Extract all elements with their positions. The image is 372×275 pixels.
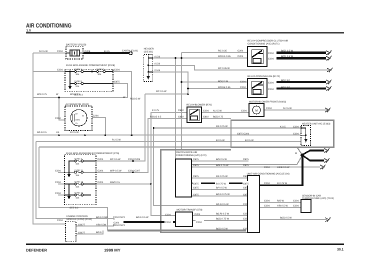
wire ECM out row1 — [76, 222, 114, 226]
svg-text:C204: C204 — [238, 55, 244, 58]
fusebox2 internal vertical — [68, 161, 70, 174]
wire transducer to unit row1 — [192, 215, 249, 217]
svg-text:C204 C871: C204 C871 — [113, 216, 126, 219]
wire fusebox1 input — [33, 71, 65, 73]
svg-text:C204: C204 — [264, 166, 270, 169]
svg-text:W/P 0.5 W: W/P 0.5 W — [110, 169, 122, 172]
svg-text:FUSE 13: FUSE 13 — [75, 181, 84, 184]
label text on black wires — [114, 52, 275, 224]
svg-text:C810: C810 — [178, 116, 184, 119]
arrow y110 — [325, 108, 331, 113]
svg-text:RC/LB 0.35: RC/LB 0.35 — [218, 86, 231, 89]
svg-text:R/LG 0.5 W: R/LG 0.5 W — [216, 203, 229, 206]
svg-text:B(U) 3.0: B(U) 3.0 — [281, 86, 291, 89]
svg-text:LG: LG — [56, 131, 59, 134]
wire V149.5 blower pin1 and transducer — [151, 112, 187, 215]
svg-text:C204: C204 — [55, 169, 61, 172]
svg-text:B(S) 0.75: B(S) 0.75 — [213, 116, 224, 119]
svg-text:C875: C875 — [243, 164, 249, 167]
arrow y168.7 — [320, 165, 326, 170]
svg-text:C204: C204 — [165, 213, 171, 216]
svg-text:C875: C875 — [243, 158, 249, 161]
wire heater row1 — [154, 127, 301, 129]
svg-text:10A: 10A — [76, 197, 80, 200]
svg-text:0.5 B: 0.5 B — [155, 69, 161, 72]
svg-text:C204: C204 — [264, 199, 270, 202]
alternator — [55, 103, 99, 131]
wire fuse2 row1 to RC line — [96, 94, 145, 161]
fuse P3 — [65, 183, 97, 185]
svg-text:C204: C204 — [238, 50, 244, 53]
svg-text:C204: C204 — [293, 125, 299, 128]
enclosure heater area — [231, 120, 334, 147]
wire header branch2 to offpage y70 — [153, 65, 329, 70]
svg-text:C204: C204 — [264, 204, 270, 207]
svg-text:RC 0.35 W: RC 0.35 W — [218, 67, 230, 70]
svg-text:C204: C204 — [196, 221, 202, 224]
svg-text:C875: C875 — [193, 175, 199, 178]
labels mid area — [96, 67, 297, 234]
ground arrow in header — [147, 76, 151, 80]
svg-text:C204: C204 — [264, 182, 270, 185]
fusebox2 arrow 1 — [67, 174, 70, 178]
fuse P4 — [65, 194, 92, 196]
svg-text:MOTOR-TRANSF (S78): MOTOR-TRANSF (S78) — [177, 209, 203, 212]
svg-text:B(S) 0.5 W: B(S) 0.5 W — [216, 228, 228, 231]
svg-text:C204: C204 — [240, 80, 246, 83]
fuse F2 — [96, 70, 113, 72]
svg-text:MODULE (ECM) (Z132): MODULE (ECM) (Z132) — [67, 218, 93, 221]
svg-text:W/S 0.75: W/S 0.75 — [37, 93, 48, 96]
svg-text:C875: C875 — [114, 81, 120, 84]
footer rule — [26, 243, 344, 245]
relay cooling fan — [218, 75, 291, 98]
svg-text:W/LG 0.5: W/LG 0.5 — [70, 93, 81, 96]
svg-text:(S/E101): (S/E101) — [144, 50, 154, 53]
svg-text:B 4.5: B 4.5 — [104, 50, 110, 53]
wire main vertical V33 — [33, 53, 66, 224]
wire V36 to inline connector — [36, 142, 118, 223]
svg-text:0.5 B: 0.5 B — [155, 55, 161, 58]
fusebox internal vertical — [69, 72, 71, 87]
fuse box passenger compartment — [55, 152, 141, 209]
svg-text:B/Y 0.5 W: B/Y 0.5 W — [216, 186, 227, 189]
svg-text:C204: C204 — [57, 69, 63, 72]
svg-text:C875: C875 — [193, 164, 199, 167]
svg-text:B(S) 0.35: B(S) 0.35 — [218, 80, 229, 83]
svg-text:RELAY-BLOWER (R76): RELAY-BLOWER (R76) — [187, 104, 212, 107]
heater unit dashed — [216, 123, 330, 146]
svg-text:C204: C204 — [268, 81, 274, 84]
wire V175.5 to switch pack top — [175, 58, 177, 159]
switch pack air conditioning — [176, 151, 207, 197]
svg-text:N 0.5 W: N 0.5 W — [39, 50, 48, 53]
svg-text:C204: C204 — [293, 204, 299, 207]
wire B0.5 line to X junction — [39, 147, 302, 155]
wire relay blower out to motor — [202, 111, 250, 113]
wire V152.3 heater feed — [154, 128, 248, 206]
wire labels top left area — [37, 90, 167, 141]
junction dots misc — [58, 57, 189, 185]
svg-text:C204: C204 — [57, 50, 63, 53]
svg-text:MOTOR-BLOWER FRONT (M103): MOTOR-BLOWER FRONT (M103) — [249, 100, 286, 103]
svg-text:LG/B 0.5 W: LG/B 0.5 W — [277, 166, 290, 169]
svg-text:C204: C204 — [195, 213, 201, 216]
arrow y89 — [326, 86, 332, 91]
svg-text:RC 0.5 W: RC 0.5 W — [110, 158, 121, 161]
battery P100 — [39, 44, 110, 59]
fuse F1 — [65, 70, 96, 72]
svg-text:C204: C204 — [293, 199, 299, 202]
svg-text:M: M — [295, 152, 297, 155]
svg-text:10A: 10A — [76, 186, 80, 189]
wire main bus y133.5 — [33, 134, 301, 136]
wire pack row1 dead end — [192, 160, 249, 162]
earth E100 — [122, 50, 138, 55]
svg-text:C204: C204 — [114, 69, 120, 72]
relay clutch output 1 — [267, 52, 326, 54]
svg-text:GEN: GEN — [76, 119, 81, 122]
wire transducer to unit row2 — [192, 220, 249, 222]
relay compressor clutch — [218, 40, 294, 67]
arrow y71.7 — [327, 68, 333, 72]
wire pack pin1 to X — [192, 155, 303, 164]
arrow X out 2 — [324, 158, 330, 163]
motor blower front — [203, 100, 292, 116]
svg-text:30.1: 30.1 — [337, 248, 344, 252]
svg-text:C204: C204 — [55, 181, 61, 184]
svg-text:C204: C204 — [98, 158, 104, 161]
svg-text:C875: C875 — [193, 183, 199, 186]
wire alternator output to bus — [89, 118, 105, 136]
svg-text:FUSE BOX-ENGINE COMPARTMENT (P: FUSE BOX-ENGINE COMPARTMENT (P108) — [66, 64, 115, 67]
arrow y82 — [326, 80, 332, 85]
wire fusebox1 out row1 to bus — [113, 72, 132, 136]
fusebox2 arrow 2 — [67, 196, 70, 200]
svg-text:C208: C208 — [85, 50, 91, 53]
battery main cable — [84, 52, 130, 54]
svg-text:RC 0.35: RC 0.35 — [218, 49, 227, 52]
pack-unit black row — [192, 182, 250, 184]
svg-text:RC/LG 0.35: RC/LG 0.35 — [218, 55, 231, 58]
svg-text:RS/LG 0.5: RS/LG 0.5 — [150, 116, 162, 119]
fuse P2 — [65, 171, 97, 173]
fuse P1 — [69, 160, 96, 162]
wire V181.5 trunk — [181, 53, 183, 150]
svg-text:C875: C875 — [193, 187, 199, 190]
svg-text:C204: C204 — [241, 109, 247, 112]
wire header branch1 to relay clutch row2 — [153, 57, 248, 59]
svg-text:B(U) 3.0: B(U) 3.0 — [281, 79, 291, 82]
svg-text:B/G 0.75 W: B/G 0.75 W — [216, 164, 229, 167]
svg-text:C875: C875 — [193, 193, 199, 196]
svg-text:W: W — [56, 93, 59, 96]
svg-text:B/LG 0.5 W: B/LG 0.5 W — [136, 216, 149, 219]
svg-text:C204: C204 — [98, 169, 104, 172]
wire battery feed left — [33, 52, 66, 54]
wire ECM out row2 — [76, 231, 103, 235]
wire relay clutch row1 — [182, 52, 248, 54]
header S/E101 — [144, 47, 161, 81]
junction dot fuses — [91, 71, 93, 73]
svg-text:C204: C204 — [98, 181, 104, 184]
wire unit to sensor row1 — [258, 201, 301, 203]
unit air conditioning — [247, 166, 300, 233]
fusebox internal arrow — [68, 86, 71, 90]
svg-text:C204: C204 — [55, 117, 61, 120]
svg-text:C204 C207: C204 C207 — [128, 169, 141, 172]
header rule — [26, 32, 344, 34]
wire fuse row2 loop to alternator bus — [33, 84, 127, 98]
arrow y58.2 — [326, 56, 332, 61]
svg-text:C204: C204 — [93, 115, 99, 118]
svg-text:R 2.5 W: R 2.5 W — [112, 139, 121, 142]
wire unit offpage y218.5 — [258, 219, 327, 221]
svg-text:CONDITIONING (A/C) (R171): CONDITIONING (A/C) (R171) — [248, 42, 280, 45]
svg-text:1999 MY: 1999 MY — [104, 247, 121, 252]
svg-text:B(O) 2.5 W: B(O) 2.5 W — [281, 55, 294, 58]
wire motor blower offpage — [264, 109, 329, 111]
svg-text:C204: C204 — [165, 221, 171, 224]
arrow X out 1 — [324, 148, 330, 153]
svg-text:C204: C204 — [268, 52, 274, 55]
fuse F3 — [70, 82, 113, 84]
svg-text:RS 0.75 W: RS 0.75 W — [216, 125, 228, 128]
svg-text:B 0.5 W: B 0.5 W — [216, 139, 225, 142]
svg-text:C0677: C0677 — [78, 231, 86, 234]
svg-text:C204 C871: C204 C871 — [113, 224, 126, 227]
svg-text:B(O) 2.5 W: B(O) 2.5 W — [281, 49, 294, 52]
wire pack to unit row 189 — [192, 188, 250, 190]
svg-text:BATTERY (P100): BATTERY (P100) — [66, 44, 86, 47]
svg-text:B/LG 0.5W: B/LG 0.5W — [96, 216, 108, 219]
svg-text:C204: C204 — [268, 58, 274, 61]
svg-text:C875 C204: C875 C204 — [237, 132, 250, 135]
wire unit to sensor row2 — [258, 206, 301, 208]
svg-text:SEE 8.2: SEE 8.2 — [70, 206, 79, 209]
svg-text:RG/X 0.5: RG/X 0.5 — [110, 181, 121, 184]
enclosure switch pack area — [161, 150, 249, 233]
svg-text:10A: 10A — [76, 163, 80, 166]
svg-text:FUSE 11: FUSE 11 — [75, 169, 84, 172]
svg-text:K 0.5: K 0.5 — [280, 125, 286, 128]
svg-text:20A: 20A — [76, 85, 80, 88]
svg-text:C810: C810 — [203, 116, 209, 119]
svg-text:C204: C204 — [57, 219, 63, 222]
fuse box engine compartment — [57, 64, 120, 96]
wire alternator left pin — [59, 98, 69, 121]
relay blower — [150, 104, 224, 123]
ECM engine control module — [57, 215, 108, 242]
svg-text:B/LG 0.75 W: B/LG 0.75 W — [216, 193, 230, 196]
svg-text:C810: C810 — [178, 109, 184, 112]
svg-text:RS 0.75 W: RS 0.75 W — [216, 175, 228, 178]
svg-text:N 2.5 W: N 2.5 W — [213, 109, 222, 112]
svg-text:R 0.5 W: R 0.5 W — [70, 131, 79, 134]
svg-text:Y/B 0.5 W: Y/B 0.5 W — [277, 204, 289, 207]
wire pack to unit row 196 — [192, 195, 250, 197]
svg-text:DEFENDER: DEFENDER — [26, 247, 47, 252]
svg-text:C204: C204 — [203, 109, 209, 112]
svg-text:ALTERNATOR (Z100): ALTERNATOR (Z100) — [66, 103, 90, 106]
svg-text:C875: C875 — [243, 183, 249, 186]
wire fuse2 row2 to relay blower pin2 — [96, 119, 187, 173]
wire header branch3 to relay fan row1 — [153, 72, 188, 94]
bar thick gray wire y230.5 — [108, 229, 247, 231]
svg-text:FUSE 3: FUSE 3 — [75, 158, 83, 161]
svg-text:FUSE 9: FUSE 9 — [75, 80, 83, 83]
wire fuse2 row3 junction — [96, 183, 151, 185]
svg-text:R 0.75 W: R 0.75 W — [277, 182, 288, 185]
svg-text:C875: C875 — [193, 158, 199, 161]
svg-text:AIR CONDITIONING: AIR CONDITIONING — [26, 22, 72, 29]
wire V39 to bar corner — [39, 147, 108, 231]
svg-text:RELAY-COOLING FAN (R172): RELAY-COOLING FAN (R172) — [248, 75, 281, 78]
wire pack to unit row 178 — [192, 177, 250, 179]
svg-text:C204: C204 — [268, 88, 274, 91]
svg-text:B/LG: B/LG — [96, 231, 102, 234]
arrow y52.7 — [326, 50, 332, 55]
svg-text:C204: C204 — [240, 86, 246, 89]
svg-text:W: W — [82, 115, 84, 118]
svg-text:B(LP) 0.5 W: B(LP) 0.5 W — [216, 213, 230, 216]
wire relay fan row1 — [182, 81, 248, 83]
relay fan output 2 — [267, 87, 326, 89]
svg-text:1.0: 1.0 — [26, 29, 31, 33]
svg-text:Y/B 0.5W: Y/B 0.5W — [96, 223, 107, 226]
svg-text:FUSE 15: FUSE 15 — [75, 192, 84, 195]
relay fan output 1 — [267, 81, 326, 83]
label boxes on black wires — [113, 50, 277, 224]
transducer black feed — [118, 221, 176, 223]
wire fuse2 left stubs — [58, 172, 65, 195]
svg-text:C0677: C0677 — [78, 223, 86, 226]
svg-text:RC 0.5 W: RC 0.5 W — [156, 90, 167, 93]
relay clutch output 2 — [267, 57, 326, 59]
arrow y218.5 — [325, 217, 331, 222]
svg-text:C204: C204 — [55, 192, 61, 195]
X junction dot — [301, 154, 304, 157]
svg-text:HEATER UNIT-A/C (E163): HEATER UNIT-A/C (E163) — [302, 123, 330, 126]
transducer — [165, 209, 203, 227]
wire relay blower out2 to enclosure — [202, 118, 232, 120]
X junction left legs — [302, 151, 324, 161]
svg-text:FUSE 2: FUSE 2 — [97, 68, 105, 71]
svg-text:R/LG 0.5: R/LG 0.5 — [37, 131, 47, 134]
svg-text:B 0.75 W: B 0.75 W — [216, 183, 227, 186]
svg-text:30A: 30A — [98, 73, 102, 76]
svg-text:R/S W: R/S W — [277, 199, 285, 202]
wire pack row2 to offpage arrow — [192, 166, 321, 168]
sensor in-car temperature — [301, 194, 334, 212]
svg-text:15A: 15A — [76, 174, 80, 177]
svg-text:K 0.75: K 0.75 — [152, 109, 160, 112]
svg-text:CONDITIONING (A/C) (E70): CONDITIONING (A/C) (E70) — [176, 154, 207, 157]
wire RC 0.5 line y94.2 — [145, 93, 188, 95]
svg-text:C204: C204 — [266, 107, 272, 110]
svg-text:B(S) 0.75 W: B(S) 0.75 W — [216, 218, 230, 221]
svg-text:FUSE 1: FUSE 1 — [75, 68, 83, 71]
wire labels pack-unit rows — [216, 139, 254, 231]
svg-text:RC/LG W: RC/LG W — [130, 98, 141, 101]
svg-text:B(S) 0.5 W: B(S) 0.5 W — [280, 217, 292, 220]
svg-text:N 2.5 W: N 2.5 W — [283, 107, 292, 110]
svg-text:0.5 B: 0.5 B — [155, 63, 161, 66]
svg-text:B/S 0.5 W: B/S 0.5 W — [216, 158, 228, 161]
wire relay fan coil feed — [188, 88, 248, 90]
svg-text:C204: C204 — [293, 132, 299, 135]
svg-text:C204 C206: C204 C206 — [128, 158, 141, 161]
wire line y141.5 to heater — [36, 141, 301, 143]
X junction down leg to unit — [258, 155, 303, 185]
svg-text:B 0.5 W: B 0.5 W — [245, 139, 254, 142]
svg-text:30A: 30A — [76, 73, 80, 76]
